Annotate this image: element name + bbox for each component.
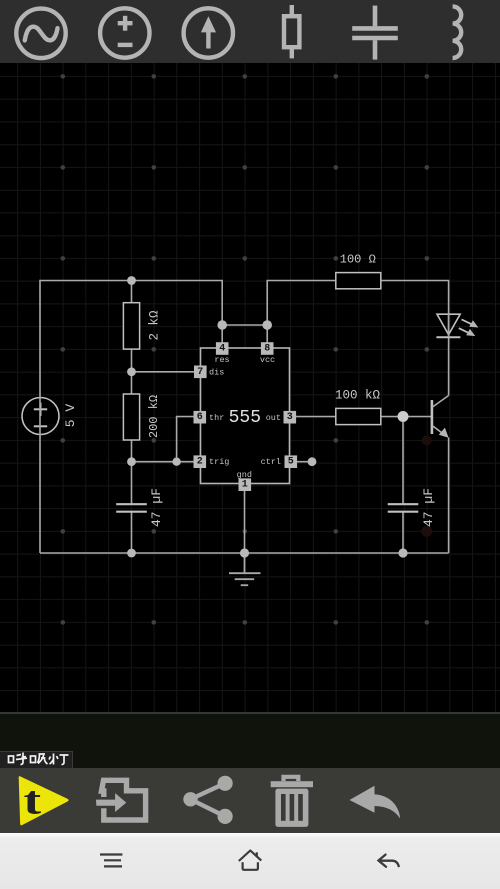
wire C2 to bottom rail [402,512,404,553]
icon import [95,780,146,820]
junction top rail / 2k [127,276,136,285]
LED D1 [436,314,478,337]
svg-text:47 µF: 47 µF [421,488,436,527]
svg-text:100 Ω: 100 Ω [340,253,376,267]
wire gnd pin 1 [244,491,246,553]
wire vcc riser [267,281,336,344]
pin 4 res [214,342,229,365]
resistor 100 kΩ [336,408,381,424]
icon inductor [453,6,462,58]
junction bottom rail C2 [398,548,407,557]
junction bottom rail C1 [127,549,136,558]
ground [229,553,261,585]
svg-text:ctrl: ctrl [261,457,281,467]
svg-text:dis: dis [209,367,224,377]
icon nav home [239,851,261,870]
junction bottom rail gnd [240,548,249,557]
junction res riser [217,320,227,330]
icon DC battery source [100,8,149,57]
svg-text:thr: thr [209,413,224,423]
wire out [296,416,337,418]
terminal ctrl [308,457,317,466]
wire thr L [177,417,195,462]
icon capacitor [352,6,398,60]
svg-text:gnd: gnd [237,470,252,480]
wire ctrl stub [296,461,312,463]
svg-text:47 µF: 47 µF [149,488,164,527]
wire res-vcc link [222,324,267,326]
resistor 200 kΩ [123,394,139,440]
capacitor 47 µF left [116,503,147,505]
svg-text:vcc: vcc [260,355,275,365]
svg-text:t: t [23,778,41,822]
resistor 100 Ω [336,273,381,289]
icon app logo t [19,776,69,825]
wire C1 to bottom rail [131,512,133,553]
svg-text:2 kΩ: 2 kΩ [148,310,162,341]
svg-text:555: 555 [229,408,261,428]
icon current source [184,8,233,57]
wire bottom rail [40,552,449,554]
resistor 2 kΩ [123,303,139,349]
svg-text:2: 2 [197,457,203,468]
junction vcc riser [262,320,272,330]
wire R 2k branch [131,281,133,304]
node marker red dot near transistor [422,435,432,445]
wire base node to C2 [402,417,404,505]
pin 3 out [266,411,296,424]
op-amp/timer U1 555 body [201,348,290,484]
wire dis [132,371,195,373]
wire 200k to trig node [131,440,133,462]
wire emitter to rail [448,438,450,554]
icon undo [350,786,400,819]
node marker red dot near right capacitor [421,526,432,537]
icon share [183,776,232,824]
pin 8 vcc [260,342,275,365]
svg-text:5: 5 [288,457,294,468]
junction trig node [127,457,136,466]
svg-text:trig: trig [209,457,229,467]
junction dis node [127,367,136,376]
icon AC source [16,9,65,58]
svg-text:7: 7 [197,367,203,378]
icon resistor [284,5,299,58]
title tab 呼吸灯 [0,751,73,768]
pin 5 ctrl [261,455,298,468]
voltage source V1 5 V [22,398,59,435]
wire 2k to dis node [131,349,133,394]
svg-text:6: 6 [197,412,203,423]
pin 1 gnd [237,470,252,491]
svg-text:8: 8 [264,344,270,355]
pin 7 dis [194,366,224,379]
icon nav back [379,855,399,867]
svg-text:5 V: 5 V [63,404,78,428]
LED arrow 1 [462,319,473,324]
wire 100k to base node [380,416,431,418]
pin 2 trig [194,455,230,468]
wire top rail right to LED [380,281,448,396]
junction base node [398,411,409,422]
svg-text:200 kΩ: 200 kΩ [147,395,161,438]
icon nav menu [100,855,122,867]
svg-text:3: 3 [287,412,293,423]
svg-text:out: out [266,413,281,423]
svg-text:4: 4 [219,344,225,355]
junction thr/trig node [172,458,180,466]
svg-text:1: 1 [242,480,248,491]
pin 6 thr [194,411,225,424]
transistor Q1 NPN [432,396,449,438]
capacitor 47 µF right [388,503,419,505]
svg-text:100 kΩ: 100 kΩ [335,389,381,403]
svg-text:res: res [214,355,229,365]
icon trash [271,777,313,827]
LED arrow 2 [459,328,470,333]
wire top rail left [40,281,222,554]
wire trig node to C1 [131,462,133,504]
wire trig [132,461,195,463]
